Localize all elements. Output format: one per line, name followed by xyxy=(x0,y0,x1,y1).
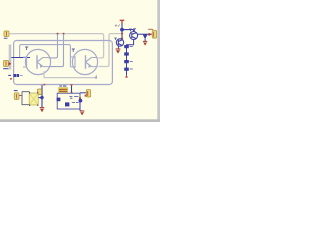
wire: base wire into T1 (dark) xyxy=(11,57,30,59)
wire: T3 emitter to ground xyxy=(117,46,119,49)
label 100n xyxy=(69,96,78,98)
wire: timer box to pad X5 xyxy=(80,92,86,94)
capacitor C out (blue) xyxy=(143,34,148,39)
label X2 xyxy=(3,69,11,76)
red tick right edge xyxy=(79,97,81,99)
red tick at box bottom xyxy=(43,84,45,86)
VCC symbol (top right, red) xyxy=(120,20,125,24)
wire: VCC down to junction xyxy=(121,24,123,29)
label C2 xyxy=(72,101,79,103)
wire: grey band (thick) left side xyxy=(9,45,12,70)
wire: box bottom to timer box xyxy=(71,85,73,93)
wire: junction to T4 collector xyxy=(122,30,134,32)
T2 emitter arrow xyxy=(88,64,91,68)
pin arrow at X2 xyxy=(9,62,12,65)
wire: vertical from rail to T1 collector xyxy=(49,34,58,58)
diode D1 xyxy=(124,45,129,48)
red mark below X5 xyxy=(85,95,87,97)
junction dot on rail xyxy=(57,33,59,35)
junction dot xyxy=(120,28,124,32)
transistor T1 (big circle) xyxy=(23,49,51,74)
ground (red arrow) xyxy=(143,41,147,45)
ground (red arrow) xyxy=(80,111,85,115)
bottom window border xyxy=(0,119,160,122)
connector pad X2 (left middle) xyxy=(4,61,9,67)
transistor T3 (small) xyxy=(116,39,123,46)
wire: left emitter drop from box to ground xyxy=(41,85,43,107)
red tick xyxy=(71,84,73,86)
wire: vertical from rail to T1 emitter xyxy=(49,34,64,67)
red tick at X5 xyxy=(87,91,89,96)
T1 emitter arrow xyxy=(40,64,43,68)
diode D3 xyxy=(124,60,129,63)
connector pad X1 (top left) xyxy=(4,31,9,37)
label T3 xyxy=(114,38,117,40)
ground (red arrow) xyxy=(40,108,45,113)
timer box xyxy=(57,93,80,109)
wire: down to ground xyxy=(80,100,82,110)
wire: inner cross-coupling line xyxy=(20,45,71,67)
red pin tick chain end xyxy=(126,76,128,78)
red pin tick T3 collector xyxy=(121,38,123,40)
label D4 xyxy=(130,68,133,70)
capacitor C2 blob bottom xyxy=(65,102,69,106)
label D1 xyxy=(130,45,133,47)
transistor T2 (big circle) xyxy=(70,49,97,74)
pin arrow at OUT xyxy=(149,33,152,36)
connector pad X5 xyxy=(86,90,90,97)
wire: junction to buzzer xyxy=(38,97,42,99)
wire: grey supply rail from X1 to right, down to T2 collector xyxy=(9,34,104,58)
connector pad X3 xyxy=(37,89,41,95)
label D3 xyxy=(130,61,133,63)
red pin tick at grey net join xyxy=(121,33,123,35)
red tick xyxy=(71,92,73,94)
label X4 xyxy=(14,90,18,92)
label T4 xyxy=(129,29,136,32)
label T2 xyxy=(72,49,75,52)
label +9V (grey) xyxy=(115,24,120,27)
label T1 xyxy=(25,47,28,50)
wire: grey path T2 emitter up and right to amp input xyxy=(98,34,120,67)
connector pad X4 (bottom far left) xyxy=(14,93,19,100)
component S1 highlighted (yellow with stripes) xyxy=(59,86,68,93)
diode D2 xyxy=(124,52,129,55)
connector pad OUT xyxy=(152,31,156,39)
diode D4 xyxy=(124,68,129,71)
ground (red arrow) xyxy=(116,49,121,54)
junction dot on rail xyxy=(63,33,65,35)
red pin tick xyxy=(10,78,12,80)
wire: junction down to T3 xyxy=(121,30,123,39)
net label blobs left of box edge xyxy=(14,74,20,77)
junction dot on right edge xyxy=(79,99,83,103)
wire: T4 emitter down and left to resistor chain xyxy=(127,40,134,76)
right window border xyxy=(157,0,160,122)
capacitor C1 blob on left edge xyxy=(57,98,61,102)
wire: grey line under transistors xyxy=(44,71,96,78)
transistor T4 (small) xyxy=(130,32,138,40)
module box (multivibrator outline) xyxy=(14,41,113,85)
wire: T4 output to OUT pad xyxy=(138,33,152,35)
wire: frame to buzzer xyxy=(19,92,29,105)
label X1 xyxy=(4,37,8,39)
buzzer SP1 (yellow box with cross) xyxy=(29,92,38,106)
label OUT (red) xyxy=(148,28,153,30)
junction dot xyxy=(40,96,43,99)
